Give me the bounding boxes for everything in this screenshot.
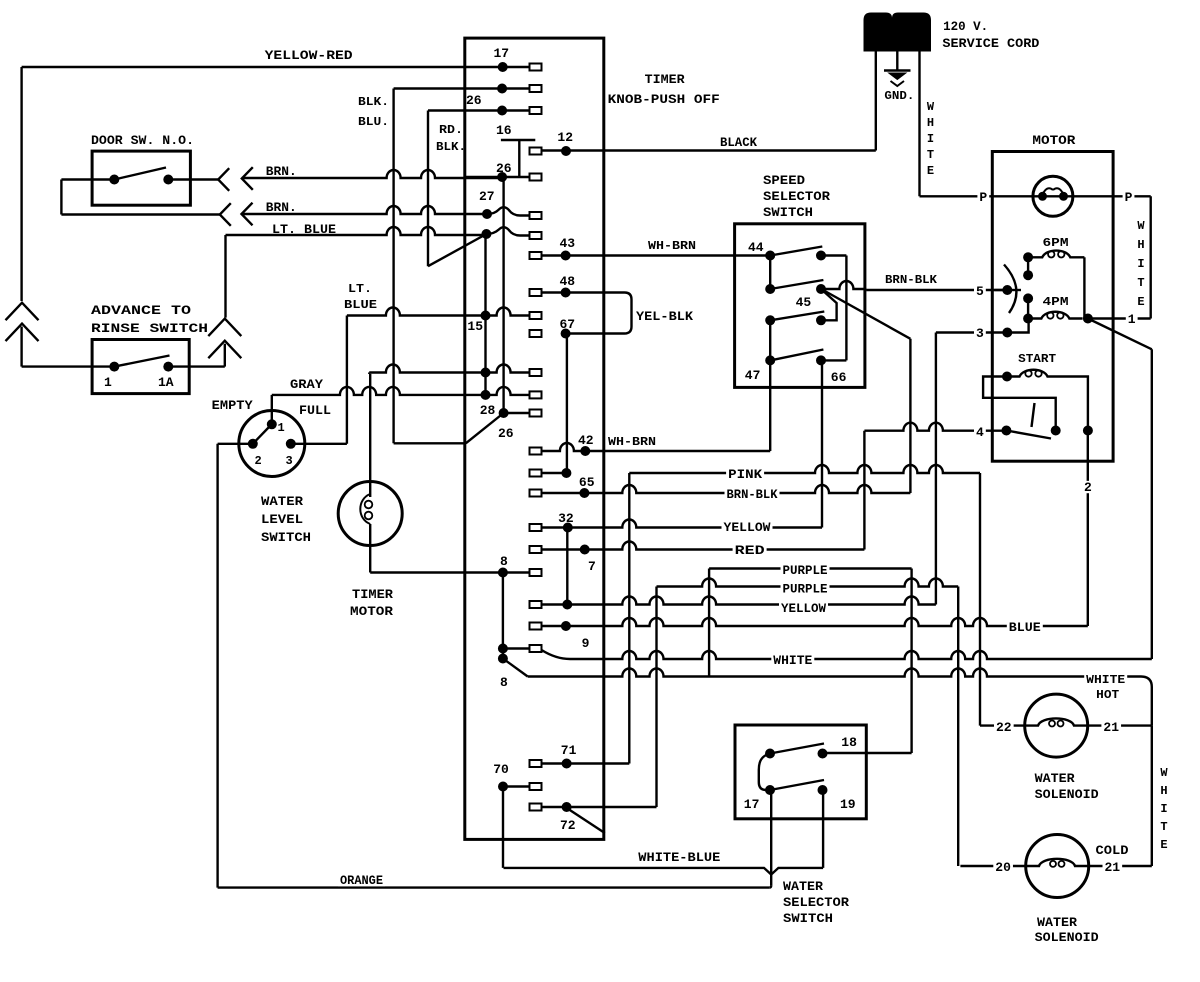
label WHITE cord vertical <box>927 100 935 178</box>
motor start switch arc <box>1004 265 1016 314</box>
timer terminal 26 dot <box>497 172 507 182</box>
svg-text:47: 47 <box>745 368 761 383</box>
svg-text:BRN.: BRN. <box>266 164 297 179</box>
label 7 <box>588 559 596 574</box>
svg-text:1A: 1A <box>158 375 174 390</box>
svg-text:COLD: COLD <box>1096 843 1129 858</box>
wire 67 vertical <box>566 334 568 474</box>
label 22 <box>994 720 1014 735</box>
wire start coil right elbow <box>1060 377 1088 431</box>
svg-text:I: I <box>1160 802 1167 816</box>
label 3 wls <box>286 454 293 468</box>
wire 6PM right down <box>1083 257 1085 318</box>
label 45 <box>796 295 812 310</box>
label 17 <box>494 46 510 61</box>
label 28 <box>480 403 496 418</box>
label WATER LEVEL SWITCH <box>261 494 311 545</box>
label 65 <box>579 475 595 490</box>
wire WHITE-BLUE row <box>504 868 824 875</box>
timer terminal 7 dot <box>580 545 590 555</box>
label WH-BRN 2 <box>608 435 656 449</box>
wire RD BLK vertical <box>427 111 429 267</box>
svg-text:BLUE: BLUE <box>1009 620 1041 635</box>
wire 21 cold row <box>1089 865 1152 867</box>
motor terminal 3 dot <box>1002 328 1012 338</box>
label 4PM <box>1043 295 1069 309</box>
timer terminal 8 dot <box>498 568 508 578</box>
timer terminal 32 lug <box>530 524 542 531</box>
svg-text:WATER: WATER <box>1037 915 1077 930</box>
label GND. <box>884 89 914 103</box>
selector elbow 45 to r3 <box>821 289 837 320</box>
label YELLOW <box>722 520 773 535</box>
svg-text:WHITE: WHITE <box>773 653 812 668</box>
label 2 <box>1082 480 1094 495</box>
wire wls 2 left <box>218 443 253 445</box>
service cord plug <box>864 13 931 51</box>
svg-text:8: 8 <box>500 675 508 690</box>
cold solenoid circle <box>1026 835 1089 898</box>
svg-text:6PM: 6PM <box>1043 236 1069 250</box>
wire YELLOW-RED from timer 17 to left side <box>22 66 503 68</box>
svg-text:44: 44 <box>748 240 764 255</box>
svg-text:21: 21 <box>1103 720 1119 735</box>
motor 6PM left dot <box>1023 252 1033 262</box>
connector chevron upper left second <box>6 324 39 342</box>
svg-text:RINSE SWITCH: RINSE SWITCH <box>91 321 208 336</box>
svg-text:SWITCH: SWITCH <box>783 911 833 926</box>
wire 42 row <box>542 443 586 451</box>
motor protector circle <box>1033 176 1073 216</box>
svg-text:19: 19 <box>840 797 856 812</box>
wire motor3 vertical <box>935 333 937 605</box>
wire 8c diagonal <box>503 659 528 677</box>
wire gray bus hop to lug <box>486 387 542 399</box>
timer terminal 67 dot <box>561 329 571 339</box>
svg-text:26: 26 <box>498 426 514 441</box>
svg-text:E: E <box>1160 838 1167 852</box>
label 71 <box>561 743 577 758</box>
svg-text:BLK.: BLK. <box>436 140 466 154</box>
wire white right vertical lower <box>1151 349 1153 659</box>
wire P row <box>920 195 1151 197</box>
timer terminal y2 lug <box>530 601 542 608</box>
selector blade 2 <box>770 280 823 289</box>
timer terminal 67 lug <box>530 330 542 337</box>
svg-text:WH-BRN: WH-BRN <box>648 239 696 253</box>
label 44 <box>748 240 764 255</box>
svg-text:E: E <box>1137 295 1144 309</box>
wire white vertical to cold <box>1151 726 1153 866</box>
timer terminal 28 dot <box>499 408 509 418</box>
wire 22 row <box>980 724 1025 726</box>
label SERVICE CORD <box>942 36 1039 51</box>
label EMPTY <box>212 398 253 413</box>
wire LT BLUE 2 row <box>347 308 486 316</box>
label TIMER <box>645 72 685 87</box>
timer terminal 65b dot <box>561 468 571 478</box>
svg-text:ORANGE: ORANGE <box>340 873 383 888</box>
wire 473 row <box>542 472 567 474</box>
svg-text:70: 70 <box>493 762 509 777</box>
label 21 cold <box>1103 860 1123 875</box>
wire advance 1A lead <box>168 365 225 367</box>
advance switch contact 1 <box>109 362 119 372</box>
wire 27 hop over bus to lug <box>487 207 542 219</box>
label LT. stacked <box>348 282 372 296</box>
timer terminal 17 lug <box>503 64 542 71</box>
wire diagonal to terminal 28 <box>466 413 504 443</box>
wire timer motor feed down <box>369 374 371 482</box>
timer terminal 12 lug <box>530 148 542 155</box>
wire door switch left lead <box>61 178 114 180</box>
svg-text:I: I <box>1137 257 1144 271</box>
svg-text:43: 43 <box>560 236 576 251</box>
wire YELLOW row 2 <box>567 597 936 605</box>
timer bus vertical <box>502 177 504 413</box>
wire tm row bus hop to lug <box>486 365 542 377</box>
label GRAY <box>290 377 323 392</box>
motor start coil left dot <box>1002 372 1012 382</box>
svg-text:7: 7 <box>588 559 596 574</box>
svg-text:5: 5 <box>976 284 984 299</box>
motor contact mid dot <box>1023 270 1033 280</box>
motor 6PM coil <box>1028 251 1084 258</box>
wire BLK BLU vertical <box>392 89 394 444</box>
wire red top row to motor 4 <box>864 423 1006 431</box>
wire timer motor corner vert <box>368 373 370 374</box>
wire 66 to right vertical <box>821 359 846 361</box>
selector blade 1 <box>770 247 822 256</box>
svg-text:WATER: WATER <box>261 494 303 509</box>
svg-text:ADVANCE TO: ADVANCE TO <box>91 303 191 318</box>
selector contact 47 <box>765 355 775 365</box>
svg-text:72: 72 <box>560 818 576 833</box>
label 18 <box>841 735 857 750</box>
label 26 second <box>466 93 482 108</box>
wire 15 bus hop to lug <box>486 308 542 320</box>
timer terminal 8c dot <box>498 654 508 664</box>
timer left inner vertical <box>484 234 486 395</box>
label TIMER MOTOR <box>350 587 393 619</box>
label P right <box>1123 190 1135 205</box>
svg-text:32: 32 <box>558 511 574 526</box>
wire to advance switch terminal 1 <box>22 365 115 367</box>
timer row 2 lug <box>502 85 541 92</box>
label BLUE stacked <box>344 298 377 312</box>
svg-text:BRN-BLK: BRN-BLK <box>727 487 778 502</box>
timer terminal 65b lug <box>530 470 542 477</box>
label BLK. <box>358 95 389 109</box>
svg-text:RED: RED <box>735 543 765 558</box>
wire l3 to 47 vertical <box>769 320 771 360</box>
wire purple1 right vertical <box>910 569 912 754</box>
svg-text:BLACK: BLACK <box>720 135 757 150</box>
label BRN lower <box>266 200 297 215</box>
wire timer motor bottom down <box>369 546 371 573</box>
connector chevron upper left <box>6 303 39 321</box>
svg-text:KNOB-PUSH OFF: KNOB-PUSH OFF <box>608 92 720 107</box>
label 66 <box>831 370 847 385</box>
timer terminal y2 dot <box>562 600 572 610</box>
label FULL <box>299 403 331 418</box>
timer row 3 wire <box>428 109 502 111</box>
label RD. <box>439 123 463 137</box>
label LT. BLUE upper <box>272 222 336 237</box>
wire yel-blk loop <box>542 293 632 334</box>
wire 7 row <box>542 548 585 550</box>
label 32 <box>558 511 574 526</box>
svg-text:1: 1 <box>104 375 112 390</box>
wire 19 down <box>822 790 824 868</box>
door switch box <box>92 151 190 205</box>
label BRN-BLK <box>885 273 938 287</box>
label ORANGE <box>338 873 385 888</box>
label 9 <box>582 636 590 651</box>
svg-text:PURPLE: PURPLE <box>783 582 828 597</box>
svg-text:26: 26 <box>466 93 482 108</box>
svg-text:12: 12 <box>557 130 573 145</box>
wire pink vertical from 71 <box>628 473 630 764</box>
svg-text:SPEED: SPEED <box>763 173 805 188</box>
svg-text:21: 21 <box>1105 860 1121 875</box>
wire wls 3 right <box>291 443 347 445</box>
svg-text:BRN.: BRN. <box>266 200 297 215</box>
svg-text:LT.: LT. <box>348 282 372 296</box>
svg-text:66: 66 <box>831 370 847 385</box>
wire RD BLK diagonal <box>428 234 486 266</box>
cold solenoid coil <box>1026 859 1089 867</box>
svg-text:T: T <box>1160 820 1167 834</box>
label WHITE hot <box>1084 673 1127 687</box>
connector chevron right pair lower <box>208 341 241 359</box>
motor start switch blade <box>1006 431 1051 439</box>
svg-text:16: 16 <box>496 123 512 138</box>
svg-text:RD.: RD. <box>439 123 463 137</box>
svg-text:WHITE-BLUE: WHITE-BLUE <box>638 850 720 865</box>
svg-text:WH-BRN: WH-BRN <box>608 435 656 449</box>
selector contact 66 <box>816 355 826 365</box>
timer terminal 71 lug <box>530 760 542 767</box>
label P left <box>977 190 989 205</box>
wire PURPLE row 1 <box>709 567 912 569</box>
motor protector contacts <box>1038 188 1068 201</box>
svg-text:PURPLE: PURPLE <box>783 563 828 578</box>
label WATER SOLENOID cold <box>1035 915 1099 945</box>
svg-text:P: P <box>1125 190 1133 205</box>
timer terminal 9 dot <box>561 621 571 631</box>
label RED <box>733 543 767 558</box>
svg-text:WATER: WATER <box>783 879 823 894</box>
label START <box>1018 352 1056 366</box>
svg-text:GND.: GND. <box>884 89 914 103</box>
svg-text:H: H <box>927 116 934 130</box>
wire 4pm contact stub <box>1027 298 1029 318</box>
svg-text:48: 48 <box>560 274 576 289</box>
wire white cord down <box>918 51 920 196</box>
label 2 wls <box>255 454 262 468</box>
label WH-BRN <box>646 239 698 253</box>
wire RED row <box>585 542 865 550</box>
svg-text:GRAY: GRAY <box>290 377 323 392</box>
timer row 3 lug <box>502 107 541 114</box>
wire door switch left down <box>60 180 62 215</box>
selector contact 45 <box>816 284 826 294</box>
wire selector right vertical <box>845 256 847 361</box>
label BRN upper <box>266 164 297 179</box>
wire 32 vertical <box>566 528 568 605</box>
timer terminal 32 dot <box>563 523 573 533</box>
wire 18 row <box>823 752 912 754</box>
selector contact 45L <box>765 284 775 294</box>
wire WH-BRN 43 to 44 <box>542 254 771 256</box>
door switch contact left <box>109 175 119 185</box>
svg-text:17: 17 <box>494 46 510 61</box>
timer row 26 wire to lug <box>465 174 542 181</box>
selector contact r3 <box>816 315 826 325</box>
water selector blade 18 <box>770 744 824 754</box>
svg-text:TIMER: TIMER <box>352 587 393 602</box>
wire timer motor row <box>369 365 485 373</box>
label YEL-BLK <box>636 309 693 324</box>
water level switch contact 1 <box>267 419 277 429</box>
wire y2 row in box <box>542 603 568 605</box>
wire 9 row in box <box>542 625 566 627</box>
timer motor row dot <box>481 368 491 378</box>
water level switch blade <box>253 427 270 444</box>
wire lt blue 2 vertical <box>346 316 348 444</box>
wire left vertical lower segment <box>20 327 22 367</box>
label 120 V. <box>943 19 988 34</box>
label 47 <box>745 368 761 383</box>
wire YELLOW row <box>568 520 822 528</box>
svg-text:BLUE: BLUE <box>344 298 377 312</box>
wire ORANGE row <box>218 886 770 888</box>
connector arrow BRN bottom <box>242 203 253 226</box>
svg-text:LEVEL: LEVEL <box>261 512 303 527</box>
wire motor diagonal to white <box>1088 319 1152 350</box>
timer terminal 8b dot <box>498 644 508 654</box>
wire wls 1 up to gray <box>271 395 273 424</box>
wire WHITE row 1 <box>542 650 1152 659</box>
wire 18L curve to 17 <box>759 754 770 791</box>
svg-text:MOTOR: MOTOR <box>1032 133 1075 148</box>
timer row 2 wire <box>394 87 503 89</box>
svg-text:1: 1 <box>278 421 285 435</box>
water level switch contact 3 <box>286 439 296 449</box>
motor 4PM coil <box>1028 312 1083 319</box>
timer row 2 dot <box>497 84 507 94</box>
svg-text:TIMER: TIMER <box>645 72 685 87</box>
wire selector r1 to right <box>821 254 846 256</box>
svg-text:YELLOW-RED: YELLOW-RED <box>265 48 353 63</box>
wire 45 diagonal <box>823 290 910 339</box>
wire 71 row <box>542 762 630 764</box>
motor box <box>992 152 1113 462</box>
selector contact 44 <box>765 251 775 261</box>
svg-text:SOLENOID: SOLENOID <box>1035 787 1099 802</box>
connector chevron door bottom <box>220 203 231 226</box>
svg-text:22: 22 <box>996 720 1012 735</box>
wire connector to advance 1A <box>224 344 226 367</box>
label 8 lower <box>500 675 508 690</box>
label 26 third <box>498 426 514 441</box>
svg-text:71: 71 <box>561 743 577 758</box>
label BLUE <box>1007 620 1043 635</box>
svg-text:W: W <box>927 100 935 114</box>
water selector contact 17 <box>765 785 775 795</box>
svg-text:BLU.: BLU. <box>358 115 389 129</box>
wire BRN-BLK 65 row <box>584 485 910 493</box>
label 19 <box>840 797 856 812</box>
wire black up to cord <box>875 51 877 151</box>
svg-text:E: E <box>927 164 934 178</box>
label 72 <box>560 818 576 833</box>
svg-text:17: 17 <box>744 797 760 812</box>
svg-text:P: P <box>979 190 987 205</box>
timer terminal 65 dot <box>579 488 589 498</box>
svg-text:67: 67 <box>560 317 576 332</box>
svg-text:45: 45 <box>796 295 812 310</box>
wire BLK BLU into timer <box>394 442 466 444</box>
wire purple2 left vertical <box>655 587 657 808</box>
timer box <box>465 38 604 839</box>
svg-text:15: 15 <box>467 319 483 334</box>
wire ground stub <box>896 51 898 70</box>
door switch contact right <box>163 175 173 185</box>
wire BRN-BLK selector to motor 5 <box>866 289 1007 291</box>
svg-text:YEL-BLK: YEL-BLK <box>636 309 693 324</box>
water level switch circle <box>239 411 305 477</box>
svg-text:SELECTOR: SELECTOR <box>763 189 830 204</box>
selector contact r1 <box>816 251 826 261</box>
label 12 <box>557 130 573 145</box>
wire 20 row <box>960 865 1025 867</box>
svg-text:9: 9 <box>582 636 590 651</box>
wire 5 row <box>994 289 1021 291</box>
wire 66 down to yellow <box>821 360 823 527</box>
label COLD <box>1096 843 1129 858</box>
wire left vertical upper segment <box>20 67 22 301</box>
svg-text:SERVICE CORD: SERVICE CORD <box>942 36 1039 51</box>
wire BLACK from timer 12 <box>542 149 876 151</box>
label 1 motor <box>1126 312 1138 327</box>
svg-text:YELLOW: YELLOW <box>781 601 826 616</box>
motor terminal 4 dot <box>1001 426 1011 436</box>
wire white hot corner down <box>1141 677 1152 726</box>
wire LT BLUE down to connector <box>224 235 226 318</box>
label 4 <box>974 425 986 440</box>
timer terminal 43 lug <box>530 252 542 259</box>
wire BRN upper to timer 26 <box>242 170 502 178</box>
svg-text:2: 2 <box>255 454 262 468</box>
wire timer motor to terminal 8 <box>370 571 503 573</box>
timer knob contact stem <box>518 140 520 177</box>
svg-text:3: 3 <box>286 454 293 468</box>
svg-text:FULL: FULL <box>299 403 331 418</box>
wire PURPLE row 2 <box>657 579 959 587</box>
wire 65 row <box>542 492 585 494</box>
wire BLUE row <box>566 618 1088 626</box>
svg-text:20: 20 <box>995 860 1011 875</box>
wire 45 exit brn-blk <box>821 281 866 289</box>
advance to rinse switch box <box>92 340 189 394</box>
motor 4PM left dot <box>1023 314 1033 324</box>
label 1 wls <box>278 421 285 435</box>
wire 45 diag vertical <box>909 339 911 493</box>
label 5 <box>974 284 986 299</box>
wire 17 down to orange <box>769 790 771 888</box>
